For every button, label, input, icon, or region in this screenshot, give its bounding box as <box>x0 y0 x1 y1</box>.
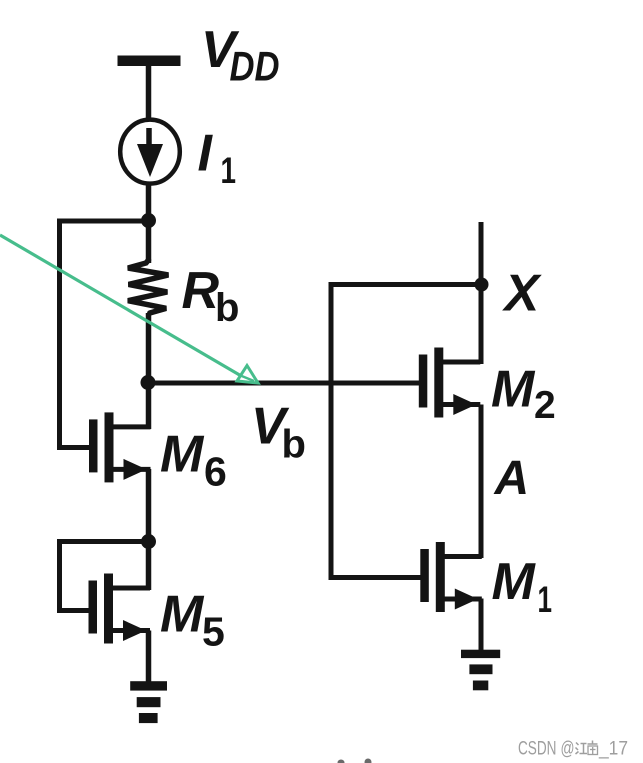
glyph 江 (simplified strokes) <box>576 743 588 755</box>
wire: current source to node at top of Rb <box>146 184 152 228</box>
transistor M6 <box>89 412 151 482</box>
power rail VDD symbol <box>118 56 181 67</box>
node X dot <box>475 278 489 292</box>
svg-text:CSDN: CSDN <box>518 739 557 760</box>
wire: M6 drain up to node Vb <box>146 383 152 429</box>
svg-text:5: 5 <box>202 609 225 655</box>
node dot: M5 drain / gate diode connection <box>141 534 156 549</box>
label M1 <box>492 553 553 620</box>
svg-text:DD: DD <box>230 43 280 90</box>
wire: M2 drain up to node X <box>479 285 484 365</box>
watermark CSDN @江南_17 <box>518 739 628 760</box>
wire: bottom of Rb to node Vb <box>146 313 152 383</box>
transistor M1 <box>420 542 482 612</box>
svg-text:_17: _17 <box>598 739 628 760</box>
node Vb dot <box>141 375 156 390</box>
svg-text:M: M <box>160 586 205 644</box>
wire: M5 source down to ground <box>146 631 152 684</box>
label Vb <box>251 398 306 467</box>
svg-text:2: 2 <box>534 384 556 427</box>
svg-text:1: 1 <box>538 579 553 620</box>
transistor M5 <box>89 574 151 644</box>
label M2 <box>491 361 556 428</box>
svg-text:b: b <box>215 286 239 330</box>
svg-text:1: 1 <box>221 150 237 191</box>
green annotation arrow pointing at node Vb <box>0 235 258 383</box>
wire: M5 drain up to node <box>146 542 152 591</box>
current source I1 <box>120 120 180 184</box>
svg-text:@: @ <box>561 739 575 760</box>
label M6 <box>160 426 227 495</box>
ground (M5 source) <box>130 681 167 723</box>
wire: node X to M1 gate (cascode feedback) <box>331 285 481 578</box>
label VDD <box>201 21 280 90</box>
wire: top of resistor Rb <box>146 221 152 263</box>
wire: output stub above node X <box>479 222 484 287</box>
glyph 南 (simplified strokes) <box>588 741 598 755</box>
stray marks at bottom edge (cut-off caption) <box>338 759 372 763</box>
svg-text:I: I <box>198 125 214 183</box>
ground (M1 source) <box>461 650 500 691</box>
label Rb <box>182 262 240 330</box>
svg-text:b: b <box>282 423 306 467</box>
label M5 <box>160 586 225 655</box>
svg-text:6: 6 <box>204 449 227 495</box>
resistor Rb <box>128 260 168 313</box>
node dot: junction of I1, Rb and M6 gate feedback <box>141 213 156 228</box>
wire: M1 source down to ground <box>479 599 484 652</box>
svg-text:M: M <box>160 426 205 484</box>
wire: node Vb to M2 gate <box>148 381 421 386</box>
wire: VDD bar to current source <box>146 64 152 119</box>
svg-text:X: X <box>502 265 543 323</box>
transistor M2 <box>419 348 481 418</box>
wire: feedback from I1/Rb node down to M6 gate <box>60 221 149 448</box>
wire: M2 source to M1 drain (node A) <box>479 405 484 559</box>
wire: M5 gate feedback (diode connection) <box>60 542 149 611</box>
label I1 <box>198 125 237 192</box>
svg-text:R: R <box>182 262 220 320</box>
svg-text:A: A <box>494 452 530 505</box>
wire: M6 source down to M5 drain node <box>146 469 152 545</box>
svg-text:M: M <box>491 361 536 419</box>
svg-text:M: M <box>492 553 537 611</box>
